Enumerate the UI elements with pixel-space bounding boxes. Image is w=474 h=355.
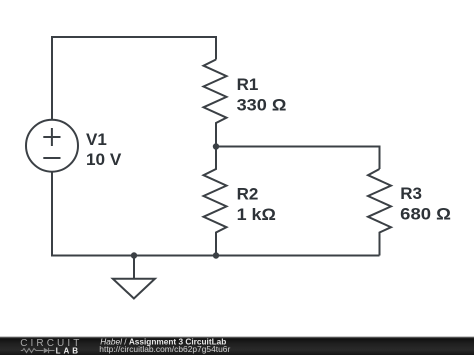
svg-text:680 Ω: 680 Ω — [400, 204, 451, 223]
svg-text:R1: R1 — [237, 75, 259, 94]
svg-text:R3: R3 — [400, 184, 422, 203]
svg-text:R2: R2 — [237, 185, 259, 204]
svg-text:http://circuitlab.com/cb62p7g5: http://circuitlab.com/cb62p7g54tu6r — [99, 344, 230, 354]
svg-text:330 Ω: 330 Ω — [237, 95, 287, 114]
svg-text:LAB: LAB — [56, 347, 81, 355]
svg-text:10 V: 10 V — [86, 150, 122, 169]
svg-text:V1: V1 — [86, 130, 107, 149]
svg-text:1 kΩ: 1 kΩ — [237, 205, 276, 224]
